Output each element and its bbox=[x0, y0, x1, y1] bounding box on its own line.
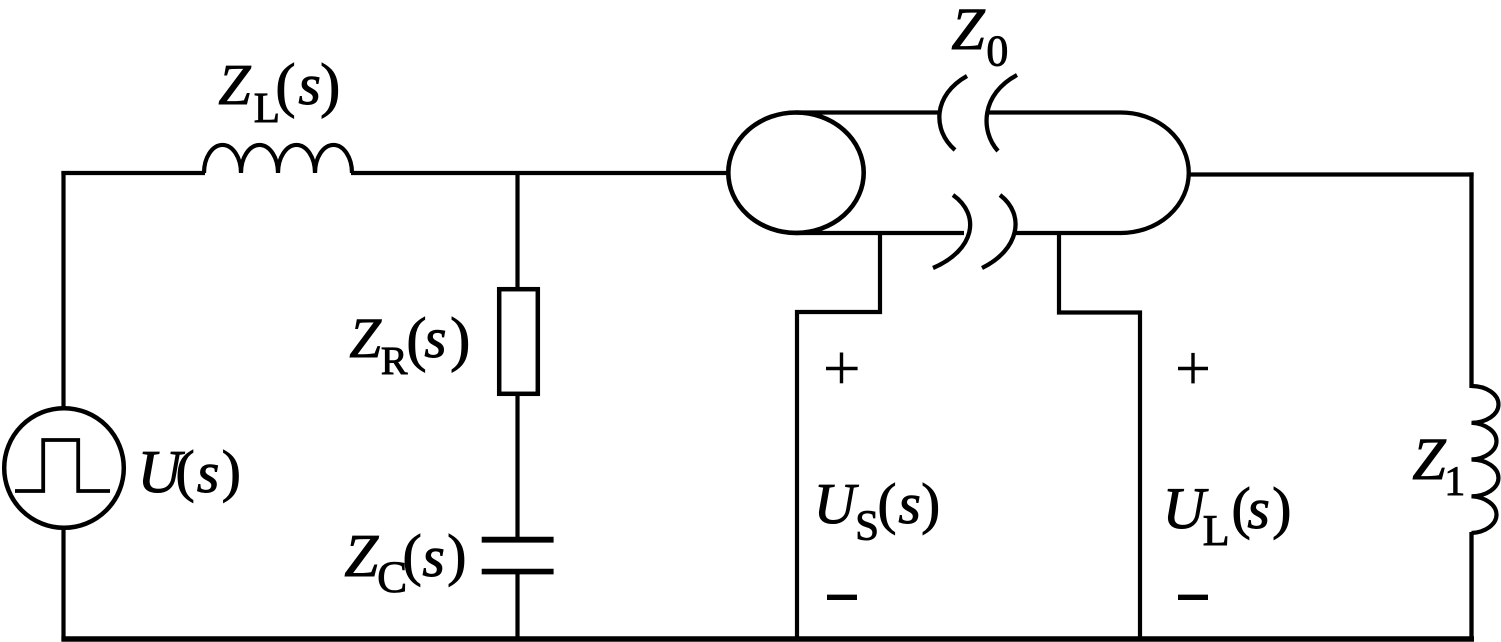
wire load-end stub from coax to UL port bbox=[1059, 231, 1140, 641]
label UL(s) load-end voltage bbox=[1168, 487, 1289, 545]
wire top-left: source node to ZL bbox=[61, 171, 205, 175]
coax break arc upper-left bbox=[939, 76, 967, 150]
label Z1 for load impedance bbox=[1413, 440, 1463, 495]
wire sending-end stub from coax to US port bbox=[797, 231, 880, 641]
source pulse waveform bbox=[15, 440, 110, 491]
coax Z0 left end-cap ellipse bbox=[728, 113, 863, 233]
wire left vertical lower: source to bottom wire bbox=[61, 527, 65, 641]
coax Z0 bottom line left segment bbox=[796, 231, 964, 235]
coax break arc lower-left bbox=[933, 195, 970, 268]
coax Z0 bottom line right segment bbox=[1014, 231, 1121, 235]
label ZR(s) for resistor bbox=[350, 317, 468, 374]
coax break arc upper-right bbox=[987, 75, 1017, 151]
inductor Z1 bbox=[1472, 386, 1499, 533]
label Z0 for transmission line bbox=[952, 10, 1007, 66]
bottom wire bbox=[61, 636, 1474, 641]
wire top-right: coax to Z1 branch bbox=[1188, 172, 1474, 176]
label ZL(s) for series inductor bbox=[219, 63, 338, 122]
capacitor ZC(s) bottom plate bbox=[482, 569, 554, 575]
inductor ZL(s) bbox=[204, 145, 352, 173]
wire right vertical lower: Z1 to bottom wire bbox=[1469, 532, 1473, 641]
label US(s) sending-end voltage bbox=[819, 483, 938, 540]
plus sign at US port bbox=[826, 353, 858, 384]
wire top-middle: ZL to coax left end bbox=[351, 171, 729, 175]
source U(s) circle bbox=[4, 408, 124, 528]
coax Z0 top line right segment bbox=[988, 110, 1121, 114]
wire middle branch: ZR to ZC bbox=[515, 392, 519, 538]
minus sign at US port bbox=[827, 595, 857, 600]
label ZC(s) for capacitor bbox=[345, 534, 464, 592]
wire left vertical upper: top wire down to source bbox=[61, 171, 65, 409]
wire middle branch lower: ZC to bottom wire bbox=[515, 574, 519, 641]
plus sign at UL port bbox=[1178, 353, 1208, 384]
minus sign at UL port bbox=[1178, 595, 1208, 600]
wire right vertical upper: to Z1 bbox=[1469, 172, 1473, 388]
coax break arc lower-right bbox=[982, 195, 1016, 268]
capacitor ZC(s) top plate bbox=[482, 537, 554, 543]
label U(s) for pulse source bbox=[143, 450, 238, 503]
coax Z0 top line left segment bbox=[796, 110, 939, 114]
wire middle branch upper: top node to ZR bbox=[515, 171, 519, 291]
resistor ZR(s) body bbox=[499, 289, 538, 394]
coax Z0 right end-cap arc bbox=[1121, 113, 1189, 234]
